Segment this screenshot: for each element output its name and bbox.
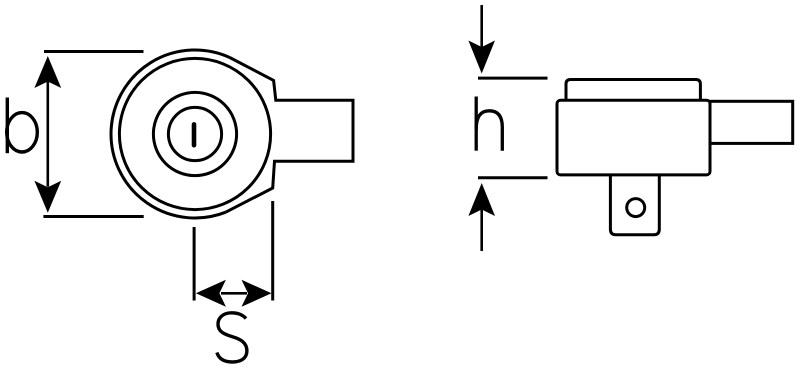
dimension b: bottom extension line bbox=[43, 215, 143, 218]
side view: right stub bbox=[710, 101, 793, 143]
side view: top cap bbox=[566, 80, 700, 102]
dimension h: bottom arrow shaft bbox=[480, 210, 483, 252]
side view: pin hole bbox=[627, 199, 645, 217]
side view: square drive tang bbox=[610, 175, 659, 235]
side view: main body bbox=[557, 100, 710, 175]
left view: middle circle bbox=[153, 92, 236, 175]
left view: outer circle arc (broken at tab) bbox=[111, 50, 230, 218]
dimension S: right extension line bbox=[271, 201, 274, 301]
dimension h: top arrow shaft bbox=[480, 5, 483, 47]
dimension S: left arrowhead bbox=[196, 280, 226, 307]
left view: center slot bbox=[192, 124, 197, 145]
label h bbox=[476, 97, 502, 151]
dimension h: top extension line bbox=[478, 77, 548, 80]
dimension b: arrow shaft bbox=[46, 82, 49, 187]
label S bbox=[217, 313, 247, 362]
left view: tab and stub outline bbox=[226, 58, 353, 213]
dimension h: bottom arrowhead (pointing up) bbox=[468, 183, 495, 216]
left view: inner circle bbox=[119, 58, 270, 209]
dimension S: arrow shaft bbox=[221, 292, 247, 295]
left view: small circle bbox=[168, 107, 221, 160]
dimension S: left extension line bbox=[193, 227, 196, 301]
dimension b: top extension line bbox=[44, 50, 144, 53]
dimension h: top arrowhead (pointing down) bbox=[468, 41, 495, 74]
dimension b: bottom arrowhead bbox=[34, 181, 61, 213]
label b bbox=[7, 98, 38, 154]
dimension S: right arrowhead bbox=[242, 280, 272, 307]
dimension b: top arrowhead bbox=[34, 56, 61, 88]
dimension h: bottom extension line bbox=[478, 176, 548, 179]
